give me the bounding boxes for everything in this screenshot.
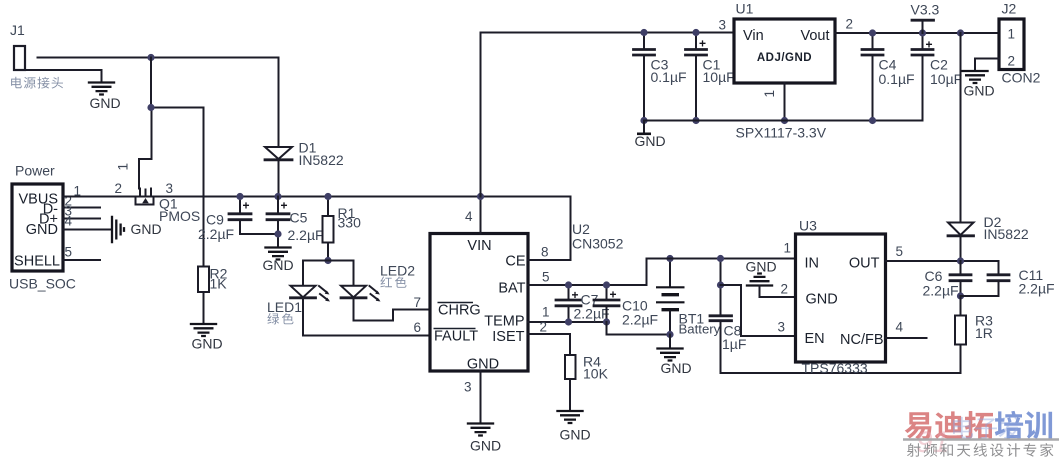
svg-text:+: + — [610, 288, 617, 302]
wire EN branch — [721, 285, 796, 336]
svg-text:GND: GND — [560, 427, 591, 443]
resistor R1 — [323, 197, 362, 261]
node C7 top — [565, 281, 572, 288]
svg-text:2.2µF: 2.2µF — [622, 312, 658, 328]
capacitor C2 — [912, 33, 962, 121]
svg-text:6: 6 — [414, 320, 422, 335]
node C7 bottom — [565, 318, 572, 325]
svg-text:Power: Power — [15, 163, 55, 179]
node C6 bottom — [957, 292, 964, 299]
svg-text:GND: GND — [192, 336, 223, 352]
LED2 red — [341, 263, 415, 302]
wire ground rail U1 — [644, 120, 923, 122]
ground USB pin4 — [112, 216, 162, 243]
svg-text:+: + — [243, 199, 250, 213]
pin 1 VBUS — [74, 184, 82, 199]
ground C5 — [263, 248, 294, 274]
ground U3 pin2 — [746, 259, 777, 286]
capacitor C7 — [556, 285, 610, 322]
svg-text:GND: GND — [746, 259, 777, 275]
svg-text:1: 1 — [542, 305, 550, 320]
node R1 rail — [324, 193, 331, 200]
svg-text:+: + — [572, 288, 579, 302]
svg-text:CHRG: CHRG — [438, 303, 481, 319]
resistor R2 — [198, 266, 228, 325]
svg-text:C5: C5 — [290, 210, 308, 226]
svg-text:3: 3 — [778, 320, 786, 335]
wire V3.3 down to D2 — [960, 33, 962, 261]
svg-text:2: 2 — [115, 181, 123, 196]
svg-text:IN5822: IN5822 — [299, 152, 344, 168]
pin 4 VIN wire — [465, 197, 481, 234]
svg-text:1R: 1R — [975, 325, 993, 341]
wire LED branch top — [303, 261, 354, 286]
resistor R3 — [955, 296, 993, 373]
wire U3 GND pin — [760, 282, 796, 298]
svg-text:GND: GND — [26, 222, 58, 238]
wire BAT net to U3 IN — [647, 258, 796, 260]
svg-text:+: + — [926, 38, 933, 52]
pin 5 OUT wire — [886, 244, 999, 261]
connector Power USB_SOC — [9, 163, 76, 292]
svg-text:GND: GND — [131, 221, 162, 237]
svg-text:IN: IN — [805, 256, 820, 272]
svg-text:ADJ/GND: ADJ/GND — [757, 52, 812, 64]
pin 1 TEMP wire — [528, 305, 607, 323]
svg-text:VIN: VIN — [467, 238, 491, 254]
wire LED2 to CHRG — [354, 298, 431, 321]
svg-text:1: 1 — [762, 90, 777, 98]
svg-text:OUT: OUT — [849, 256, 880, 272]
node D2 OUT junction — [957, 257, 964, 264]
pin 1 IN label — [784, 241, 792, 256]
node J1-5V junction — [147, 54, 154, 61]
svg-text:EN: EN — [805, 331, 825, 347]
svg-text:1: 1 — [784, 241, 792, 256]
capacitor C8 — [710, 259, 746, 374]
svg-text:10µF: 10µF — [930, 71, 962, 87]
svg-text:2: 2 — [781, 282, 789, 297]
svg-text:3: 3 — [719, 18, 727, 33]
svg-text:1: 1 — [116, 163, 131, 171]
svg-text:SPX1117-3.3V: SPX1117-3.3V — [736, 125, 827, 141]
pin 3 D+ — [63, 204, 100, 219]
pin 2 ISET wire — [528, 320, 570, 356]
LED1 green — [267, 286, 330, 325]
wire J2 pin2 to ground — [975, 59, 999, 72]
svg-text:2: 2 — [540, 320, 548, 335]
svg-text:2.2µF: 2.2µF — [198, 226, 234, 242]
capacitor C6 — [923, 261, 972, 299]
svg-text:GND: GND — [806, 292, 838, 308]
node C10 bottom — [603, 318, 610, 325]
capacitor C1 — [686, 33, 735, 121]
pin 7 label — [414, 295, 422, 310]
pin 6 label — [414, 320, 422, 335]
svg-text:CON2: CON2 — [1002, 70, 1041, 86]
svg-text:GND: GND — [964, 83, 995, 99]
node C1 bottom — [692, 117, 699, 124]
node BT1 top — [666, 255, 673, 262]
svg-text:GND: GND — [467, 357, 499, 373]
wire bottom return C8 to R3 — [721, 372, 961, 374]
svg-text:FAULT: FAULT — [434, 329, 478, 345]
svg-text:+: + — [699, 37, 706, 51]
ground R2 — [190, 324, 223, 352]
resistor R4 — [565, 354, 609, 412]
svg-text:CN3052: CN3052 — [572, 236, 624, 252]
svg-text:USB_SOC: USB_SOC — [9, 276, 76, 292]
node C4 bottom — [869, 117, 876, 124]
svg-text:GND: GND — [470, 438, 501, 454]
node C3 top — [640, 29, 647, 36]
svg-text:4: 4 — [896, 320, 904, 335]
svg-text:LED2: LED2 — [380, 263, 415, 279]
IC U3 TPS76333 — [796, 218, 886, 377]
svg-text:1K: 1K — [210, 276, 228, 292]
svg-text:BAT: BAT — [498, 281, 525, 297]
svg-text:TEMP: TEMP — [484, 314, 524, 330]
diode D1 IN5822 — [265, 140, 344, 169]
svg-text:7: 7 — [414, 295, 422, 310]
svg-text:1: 1 — [1008, 27, 1016, 42]
connector J1 — [10, 22, 63, 89]
node gate junction — [147, 104, 154, 111]
wire VIN riser to top rail — [480, 33, 482, 197]
svg-text:8: 8 — [541, 245, 549, 260]
svg-text:PMOS: PMOS — [159, 208, 200, 224]
capacitor C5 — [267, 197, 324, 248]
pin 5 BAT wire — [528, 259, 647, 286]
svg-text:2.2µF: 2.2µF — [288, 227, 324, 243]
svg-text:2.2µF: 2.2µF — [574, 306, 610, 322]
node C3 bottom — [640, 117, 647, 124]
capacitor C10 — [594, 285, 658, 328]
pin 3 EN label — [778, 320, 786, 335]
node C4 top — [869, 29, 876, 36]
svg-text:GND: GND — [661, 360, 692, 376]
svg-text:2.2µF: 2.2µF — [923, 283, 959, 299]
node U1 pin1 bottom — [781, 117, 788, 124]
svg-text:U3: U3 — [799, 218, 817, 234]
ground BT1 — [656, 335, 691, 377]
svg-text:SHELL: SHELL — [14, 254, 60, 270]
node D1 rail — [274, 193, 281, 200]
svg-text:10µF: 10µF — [703, 69, 735, 85]
IC U1 SPX1117 — [734, 1, 835, 141]
svg-text:Vin: Vin — [743, 28, 764, 44]
svg-text:2: 2 — [1008, 54, 1016, 69]
svg-text:10K: 10K — [583, 366, 609, 382]
connector J2 CON2 — [999, 1, 1041, 86]
power flag V3.3 — [911, 2, 940, 34]
node C9-C5 bottom — [274, 230, 281, 237]
svg-text:ISET: ISET — [492, 329, 524, 345]
pin 2 Vout label — [846, 17, 854, 32]
svg-text:Battery: Battery — [679, 322, 721, 337]
node R1 LED junction — [324, 257, 331, 264]
svg-text:LED1: LED1 — [267, 299, 302, 315]
svg-text:J1: J1 — [10, 22, 25, 38]
svg-text:4: 4 — [465, 209, 473, 224]
svg-text:NC/FB: NC/FB — [840, 332, 884, 348]
wire top rail right — [835, 32, 999, 34]
ground J2 — [961, 71, 994, 99]
svg-text:4: 4 — [65, 214, 73, 229]
IC U2 CN3052 — [430, 221, 624, 373]
node BT1 bottom — [666, 331, 673, 338]
svg-text:GND: GND — [635, 133, 666, 149]
node C2 top — [919, 29, 926, 36]
pin 4 NC/FB stub — [886, 320, 927, 339]
node V3.3 rail to D2 — [957, 29, 964, 36]
svg-text:U1: U1 — [736, 1, 754, 17]
pin 1 ADJ wire — [762, 83, 785, 121]
wire J1 return to ground — [25, 70, 102, 83]
svg-text:GND: GND — [263, 257, 294, 273]
ground R4 — [556, 411, 590, 443]
transistor Q1 PMOS — [115, 163, 201, 224]
wire top rail left — [481, 32, 735, 34]
svg-text:2: 2 — [846, 17, 854, 32]
pin 2 D- — [63, 194, 100, 209]
node C8 EN branch — [717, 281, 724, 288]
svg-text:0.1µF: 0.1µF — [651, 69, 687, 85]
svg-text:IN5822: IN5822 — [984, 226, 1029, 242]
battery BT1 — [656, 259, 721, 337]
ground U2 pin3 — [467, 424, 501, 454]
svg-text:TPS76333: TPS76333 — [802, 360, 868, 376]
wire LED1 to FAULT — [303, 298, 430, 336]
capacitor C3 — [634, 33, 687, 121]
diode D2 IN5822 — [948, 214, 1029, 242]
node C1 top — [692, 29, 699, 36]
ground C3 — [635, 121, 666, 150]
wire C10 to BT1 bottom — [607, 322, 671, 335]
watermark logo — [903, 411, 1059, 459]
svg-text:0.1µF: 0.1µF — [879, 71, 915, 87]
node C10 top — [603, 281, 610, 288]
svg-text:3: 3 — [464, 380, 472, 395]
svg-text:5: 5 — [542, 270, 550, 285]
pin 3 GND wire — [464, 371, 481, 424]
svg-text:Vout: Vout — [800, 28, 829, 44]
svg-text:GND: GND — [90, 95, 121, 111]
node C8 top rail — [717, 255, 724, 262]
capacitor C9 — [198, 197, 278, 243]
node C9 rail — [236, 193, 243, 200]
ground J1 — [88, 83, 121, 112]
wire gate branch — [139, 58, 204, 267]
wire VBUS rail — [63, 196, 571, 198]
svg-text:3: 3 — [166, 181, 174, 196]
node VIN rail — [477, 193, 484, 200]
capacitor C11 — [961, 261, 1055, 297]
svg-text:CE: CE — [505, 254, 525, 270]
svg-text:1µF: 1µF — [722, 336, 746, 352]
svg-text:+: + — [281, 199, 288, 213]
pin 3 Vin label — [719, 18, 727, 33]
wire J1 5V to D1 — [38, 58, 279, 197]
svg-text:2.2µF: 2.2µF — [1019, 281, 1055, 297]
svg-text:330: 330 — [338, 215, 362, 231]
svg-text:5: 5 — [65, 245, 73, 260]
pin 8 CE wire — [528, 197, 571, 261]
capacitor C4 — [862, 33, 915, 121]
pin 5 SHELL — [63, 245, 100, 261]
svg-text:5: 5 — [896, 244, 904, 259]
svg-text:V3.3: V3.3 — [911, 2, 940, 18]
svg-text:J2: J2 — [1002, 1, 1017, 17]
pin 4 GND — [63, 214, 111, 230]
